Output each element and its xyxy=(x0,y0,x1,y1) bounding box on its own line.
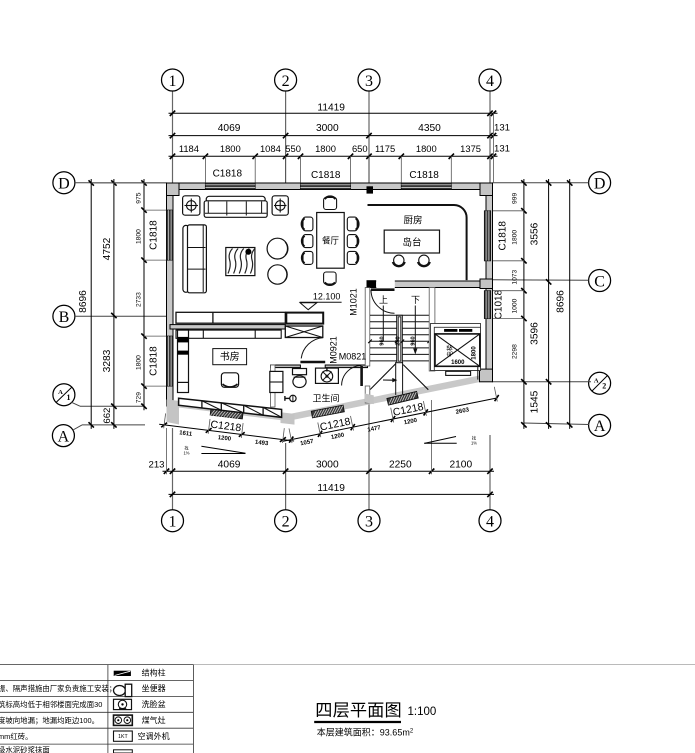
elevator shaft line xyxy=(477,367,479,380)
study desk chair xyxy=(221,373,238,388)
round lounge chair 2 xyxy=(268,265,287,284)
study bookshelf slanted xyxy=(179,398,282,417)
side table 2 with plant xyxy=(272,196,288,215)
grid bubble A/2 right + leader xyxy=(589,372,611,394)
svg-text:4350: 4350 xyxy=(418,123,441,134)
svg-text:C1018: C1018 xyxy=(494,289,505,319)
grid line 2 (vertical) xyxy=(285,91,287,183)
stair down line + label xyxy=(414,306,416,353)
wall top (grid D) xyxy=(167,183,493,190)
dim line slanted bottom-right 1057/1200/1477/1200/2603 xyxy=(283,398,497,441)
wall left xyxy=(167,183,174,406)
grid line 1 (vertical) xyxy=(172,91,174,183)
cabinet row living side xyxy=(176,312,285,323)
window C1818 left lower xyxy=(167,336,173,386)
corner block grid C right xyxy=(480,279,493,289)
dining chair top xyxy=(324,198,337,210)
stair handrail xyxy=(397,315,403,362)
wall bathroom top right segment xyxy=(325,365,367,368)
legend table lines xyxy=(0,664,193,666)
cabinet box right (thick) xyxy=(286,313,323,324)
door M1021 leaf xyxy=(371,288,395,291)
right extension lines xyxy=(493,210,524,212)
wall bathroom top left segment xyxy=(271,365,301,368)
corner block bottom-left xyxy=(167,400,180,425)
dining chair bottom xyxy=(324,272,337,284)
stair diagonal left xyxy=(370,364,396,390)
corner block top-left xyxy=(167,183,180,196)
dim line right 999/1800/1073/1000/2298 xyxy=(523,179,525,429)
floor drain xyxy=(290,395,296,401)
svg-text:1:100: 1:100 xyxy=(408,706,437,718)
kitchen stool 1 xyxy=(394,255,404,265)
grid bubble D right + leader xyxy=(589,172,611,194)
dim line bottom total 11419 xyxy=(169,493,495,495)
svg-text:2250: 2250 xyxy=(389,459,412,470)
grid bubble 4 top xyxy=(479,69,501,91)
svg-text:C1818: C1818 xyxy=(149,220,160,250)
svg-text:A: A xyxy=(594,418,606,435)
svg-text:煤气灶: 煤气灶 xyxy=(142,715,166,725)
grid bubble 3 bottom xyxy=(358,510,380,532)
svg-text:131: 131 xyxy=(494,144,510,155)
svg-text:四层平面图: 四层平面图 xyxy=(315,700,401,720)
svg-text:1800: 1800 xyxy=(512,230,519,245)
svg-text:2733: 2733 xyxy=(135,292,142,307)
wall stair hall west upper xyxy=(365,288,370,367)
svg-text:12.100: 12.100 xyxy=(313,291,341,301)
corner block bottom-right xyxy=(480,369,493,382)
svg-text:厨房: 厨房 xyxy=(403,215,422,227)
small slope wedge bottom-right xyxy=(424,437,456,444)
corner block bottom vertex xyxy=(281,412,295,424)
svg-text:岛台: 岛台 xyxy=(402,236,421,248)
svg-text:250: 250 xyxy=(396,336,402,345)
svg-text:1: 1 xyxy=(169,73,177,90)
round lounge chair 1 xyxy=(267,238,288,259)
svg-text:1545: 1545 xyxy=(530,390,541,413)
window C1218 bottom-mid xyxy=(311,405,344,418)
grid bubble 1 top xyxy=(162,69,184,91)
cabinets right of study (against bath wall) xyxy=(270,371,283,392)
legend icon AC outdoor unit xyxy=(114,731,133,741)
svg-text:电梯: 电梯 xyxy=(446,345,454,357)
svg-text:975: 975 xyxy=(135,192,142,203)
dim line top row2 4069/3000/4350/131 xyxy=(169,135,498,137)
cabinet row study side xyxy=(176,330,281,338)
window C1018 right xyxy=(484,291,490,319)
door M0821 leaf xyxy=(360,366,363,386)
grid bubble 4 bottom xyxy=(479,510,501,532)
dining chair right 2 xyxy=(347,235,357,248)
structural column at grid3/D xyxy=(367,186,374,193)
window C1818 left upper xyxy=(167,210,173,260)
wall right xyxy=(486,183,493,381)
legend icon gas stove xyxy=(114,715,133,725)
wall between stair and elevator xyxy=(429,288,435,372)
legend icon wash basin xyxy=(114,699,132,709)
svg-text:3596: 3596 xyxy=(530,322,541,345)
dim line right total 8696 xyxy=(569,179,571,429)
wall interior grid C xyxy=(367,281,490,288)
dim line top row3 window dims xyxy=(169,155,498,157)
svg-text:11419: 11419 xyxy=(317,103,345,114)
window C1818 right xyxy=(484,211,490,261)
wall bathroom left (white band) xyxy=(271,365,276,407)
sofa chaise left xyxy=(183,225,189,292)
svg-text:1: 1 xyxy=(169,514,177,531)
grid bubble 2 top xyxy=(275,69,297,91)
door gap M1021 in grid C wall xyxy=(376,281,395,289)
toilet xyxy=(293,369,307,375)
svg-text:2100: 2100 xyxy=(449,459,472,470)
svg-text:550: 550 xyxy=(285,143,301,154)
svg-text:1: 1 xyxy=(67,393,71,402)
svg-text:3: 3 xyxy=(365,73,373,90)
corner block top-right xyxy=(480,183,493,196)
svg-text:4069: 4069 xyxy=(218,123,241,134)
svg-text:C1818: C1818 xyxy=(149,346,160,376)
svg-text:C1818: C1818 xyxy=(311,170,341,181)
wall bottom-left slanted xyxy=(167,400,289,422)
svg-text:空调外机: 空调外机 xyxy=(138,731,170,741)
svg-text:2: 2 xyxy=(282,73,290,90)
svg-text:M0921: M0921 xyxy=(329,336,339,364)
stair direction arrow xyxy=(383,379,393,381)
svg-text:1800: 1800 xyxy=(315,143,336,154)
dim line left total 8696 xyxy=(90,179,92,429)
svg-text:1800: 1800 xyxy=(220,143,241,154)
svg-text:3: 3 xyxy=(365,514,373,531)
svg-text:本层建筑面积：93.65m2: 本层建筑面积：93.65m2 xyxy=(317,727,414,738)
svg-text:1600: 1600 xyxy=(451,360,465,366)
title underline xyxy=(314,721,401,723)
svg-text:4: 4 xyxy=(486,73,494,90)
svg-text:1%: 1% xyxy=(183,451,189,456)
wall interior living/study xyxy=(170,325,285,329)
cabinet X-box near bath door xyxy=(285,326,323,338)
dim line left 4752/3283/662 xyxy=(113,179,115,429)
svg-text:餐厅: 餐厅 xyxy=(322,236,340,246)
left extension lines xyxy=(144,209,167,211)
svg-text:650: 650 xyxy=(352,143,368,154)
svg-text:筑标高均低于相邻楼面完成面30: 筑标高均低于相邻楼面完成面30 xyxy=(0,700,102,709)
door M0921 leaf xyxy=(300,361,325,364)
stair dim ticks xyxy=(368,340,372,344)
svg-text:1800: 1800 xyxy=(135,355,142,370)
svg-text:960: 960 xyxy=(411,336,417,345)
svg-text:1073: 1073 xyxy=(512,269,519,284)
dining chair left 2 xyxy=(303,235,313,248)
wash basin xyxy=(316,368,339,383)
svg-text:振、隔声措施由厂家负责施工安装；: 振、隔声措施由厂家负责施工安装； xyxy=(0,684,116,693)
grid bubble A right + leader xyxy=(589,414,611,436)
elevator counterweight rect xyxy=(446,371,471,375)
coffee table with marble hatch xyxy=(226,248,255,276)
dim line bottom row 213/4069/3000/2250/2100 xyxy=(163,470,495,472)
svg-text:D: D xyxy=(594,176,606,193)
svg-text:3000: 3000 xyxy=(316,459,339,470)
grid line 4 (vertical) xyxy=(489,91,491,183)
structural column at grid C left xyxy=(367,280,377,287)
dining chair right 3 xyxy=(347,251,357,264)
stair rail extensions xyxy=(395,362,397,395)
svg-text:4: 4 xyxy=(486,514,494,531)
elevator door panels xyxy=(444,329,457,332)
stair treads xyxy=(370,314,429,316)
svg-text:A: A xyxy=(58,389,63,396)
door M0821 arc xyxy=(342,366,362,386)
corner block stair south-west xyxy=(365,394,374,405)
kitchen counter edge xyxy=(368,205,467,280)
top extension lines xyxy=(204,156,206,183)
svg-text:1800: 1800 xyxy=(471,346,477,360)
svg-text:上: 上 xyxy=(379,295,388,305)
bottom extension lines xyxy=(166,428,168,474)
svg-text:度坡向地漏；地漏均距边100。: 度坡向地漏；地漏均距边100。 xyxy=(0,716,99,725)
window C1218 bottom-right xyxy=(387,391,418,405)
svg-text:结构柱: 结构柱 xyxy=(142,667,166,677)
svg-text:8696: 8696 xyxy=(556,290,567,313)
svg-text:2298: 2298 xyxy=(512,344,519,359)
stair diagonal right xyxy=(403,365,428,390)
svg-text:1800: 1800 xyxy=(135,229,142,244)
legend icon toilet xyxy=(114,686,126,696)
grid bubble A/1 left + leader xyxy=(53,384,75,406)
svg-text:1084: 1084 xyxy=(260,143,281,154)
svg-text:2: 2 xyxy=(602,382,606,391)
svg-text:1184: 1184 xyxy=(179,143,199,154)
wall bottom-right slanted xyxy=(286,374,487,421)
svg-text:3000: 3000 xyxy=(316,123,339,134)
svg-text:M0821: M0821 xyxy=(339,352,367,362)
window C1818 top 3 xyxy=(401,183,451,189)
extension ticks from slanted walls xyxy=(164,413,166,428)
svg-text:131: 131 xyxy=(494,123,510,134)
svg-text:mm红砖。: mm红砖。 xyxy=(0,732,33,741)
grid bubble 3 top xyxy=(358,69,380,91)
svg-text:级水泥砂浆抹面: 级水泥砂浆抹面 xyxy=(0,746,50,753)
svg-text:662: 662 xyxy=(102,408,113,424)
svg-text:卫生间: 卫生间 xyxy=(312,393,339,404)
svg-text:C1818: C1818 xyxy=(409,170,439,181)
svg-text:8696: 8696 xyxy=(78,290,89,313)
window C1218 bottom-left xyxy=(210,408,243,419)
dining chair left 1 xyxy=(303,217,313,231)
window C1818 top 2 xyxy=(301,183,351,189)
svg-text:C1818: C1818 xyxy=(213,169,243,180)
svg-text:B: B xyxy=(59,309,70,326)
study left cabinet stack xyxy=(178,330,189,392)
dining table xyxy=(317,213,345,269)
kitchen island xyxy=(384,230,439,253)
svg-text:3556: 3556 xyxy=(530,222,541,245)
svg-text:960: 960 xyxy=(379,336,385,345)
svg-text:坐便器: 坐便器 xyxy=(142,683,166,693)
svg-text:洗脸盆: 洗脸盆 xyxy=(142,699,166,709)
dim line right 3556/3596/1545 xyxy=(548,179,550,429)
svg-text:4752: 4752 xyxy=(102,237,113,260)
dining chair left 3 xyxy=(303,251,313,264)
door M1021 arc xyxy=(371,290,395,314)
svg-text:C1818: C1818 xyxy=(498,221,509,251)
sheet separator line full width xyxy=(193,664,695,666)
legend icon structural column xyxy=(114,671,131,676)
stair up line + label xyxy=(382,306,384,342)
side table 1 with plant xyxy=(183,196,200,215)
svg-text:999: 999 xyxy=(512,193,519,204)
sofa 3-seat xyxy=(206,196,265,202)
wall stair hall west lower xyxy=(365,386,370,403)
grid bubble A left + leader xyxy=(52,425,74,447)
kitchen stool 2 xyxy=(419,255,429,265)
grid bubble 1 bottom xyxy=(162,510,184,532)
svg-text:729: 729 xyxy=(135,392,142,403)
study label box xyxy=(213,349,247,365)
svg-text:D: D xyxy=(58,176,70,193)
grid bubble D left + leader xyxy=(53,172,75,194)
svg-text:书房: 书房 xyxy=(220,350,240,363)
grid line 3 (vertical) xyxy=(368,91,370,183)
svg-text:1%: 1% xyxy=(471,441,477,446)
svg-text:213: 213 xyxy=(148,459,164,470)
window C1818 top 1 xyxy=(205,183,255,189)
svg-text:下: 下 xyxy=(411,295,420,305)
svg-text:11419: 11419 xyxy=(317,483,345,494)
dining chair right 1 xyxy=(347,217,357,231)
svg-text:A: A xyxy=(58,428,70,445)
svg-text:1175: 1175 xyxy=(375,143,395,154)
svg-text:3283: 3283 xyxy=(102,349,113,372)
svg-text:M1021: M1021 xyxy=(349,288,359,316)
svg-text:4069: 4069 xyxy=(218,459,241,470)
grid bubble 2 bottom xyxy=(275,510,297,532)
elevator car box with X xyxy=(435,334,480,366)
svg-text:1375: 1375 xyxy=(460,143,481,154)
small slope wedge bottom-left xyxy=(201,446,245,453)
dim line slanted bottom-left 1611/1200/1493 xyxy=(159,424,294,441)
door M0921 arc xyxy=(301,338,323,359)
svg-text:C: C xyxy=(594,273,605,290)
svg-text:1000: 1000 xyxy=(512,298,519,313)
grid bubble C right + leader xyxy=(589,270,611,292)
svg-text:1KT: 1KT xyxy=(118,734,128,740)
svg-text:1800: 1800 xyxy=(416,143,437,154)
elevator enclosure xyxy=(431,324,481,371)
grid bubble B left + leader xyxy=(53,305,75,327)
svg-text:A: A xyxy=(594,378,599,385)
dim line left 975/1800/2733/1800/729 xyxy=(143,179,145,410)
svg-text:2: 2 xyxy=(282,514,290,531)
dim line top row1 total 11419 xyxy=(169,112,498,114)
